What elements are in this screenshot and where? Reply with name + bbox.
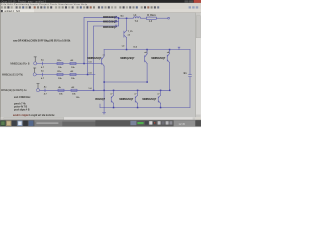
value label 10k stray [76, 97, 80, 99]
value Q5 x7 [110, 94, 113, 96]
wire Q6 collector stub [137, 103, 139, 107]
title bar [0, 0, 201, 3]
wire top branch [119, 17, 133, 19]
label V2 [2, 73, 23, 76]
transistor Q3 [167, 53, 170, 63]
wire Q7 emitter stub [160, 90, 162, 95]
wire bus vertical node D [118, 17, 120, 26]
junction row3 at Q5 [113, 90, 115, 92]
menu bar [0, 3, 201, 6]
value R2 10k [71, 67, 75, 69]
label D1 MMBD29Q7 [103, 16, 117, 19]
svg-text:saw DR KNEIeLCHEN SUFF Bkg (VB: saw DR KNEIeLCHEN SUFF Bkg (VB EUV) a 0.… [13, 40, 71, 42]
transistor Q1 [102, 56, 105, 66]
wire Q6 emitter stub [137, 90, 139, 95]
junction row2 loop B [87, 74, 89, 76]
svg-text:4m: 4m [183, 72, 186, 75]
wire Q4 collector up [126, 18, 128, 30]
wire Q1 collector stub [103, 50, 105, 57]
wire row 1 [37, 63, 101, 65]
wire row 3 [40, 89, 170, 91]
label L4 [134, 14, 137, 17]
svg-text:WAVE(1k) (E.01ETk) Ax: WAVE(1k) (E.01ETk) Ax [1, 89, 27, 92]
label Q1 MMBD29Q7 [87, 57, 102, 60]
wire loop net A (from row 1 up and right) [84, 17, 119, 63]
label row1 1.4 [88, 60, 92, 63]
net tick row 2 [41, 73, 43, 76]
resistor R7 R_Rxxx [146, 17, 156, 19]
junction bottom rail Q5 [113, 107, 115, 109]
wire Q2 collector stub [146, 50, 148, 54]
svg-text:R_Rxxx: R_Rxxx [147, 15, 156, 17]
svg-text:MMBD(1k) (R)+ B: MMBD(1k) (R)+ B [10, 62, 29, 65]
svg-text:Qucs 0.0.19 - Project: amp - u: Qucs 0.0.19 - Project: amp - untitled 2 [2, 0, 47, 3]
junction row3 at Q1 emitter [103, 90, 105, 92]
horizontal scrollbar [1, 117, 196, 120]
open terminal node out [168, 17, 170, 19]
label Q5 MMBD29Q7 [95, 98, 105, 101]
vertical scrollbar [196, 13, 202, 117]
wire Q5 emitter stub [113, 90, 115, 95]
ground flag V3 [37, 84, 39, 89]
label Q2 MMBQ29Q7 [120, 57, 135, 60]
label Q4 T_PL [128, 31, 134, 33]
resistor R3 [57, 73, 63, 75]
net flag tick on mid rail [178, 47, 180, 49]
value Q7 x7 [157, 94, 160, 96]
value R5 10k [59, 94, 63, 96]
transistor Q2 [145, 54, 148, 64]
svg-text:pwrsh 7 4k: pwrsh 7 4k [14, 102, 26, 105]
wire Q1 emitter down [103, 66, 105, 108]
svg-text:BD29Q7: BD29Q7 [95, 98, 105, 101]
svg-text:MMBD29Q7: MMBD29Q7 [103, 16, 117, 19]
wire Q7 collector stub [160, 103, 162, 107]
transistor Q6 [135, 95, 137, 103]
svg-text:axxdrt x tdgtat b xxgtd wrt td: axxdrt x tdgtat b xxgtd wrt tda bcdxrtw [13, 114, 55, 117]
value Q1 x1 [103, 54, 106, 56]
wire right vertical upper [189, 50, 191, 75]
label row3 Ax [44, 85, 48, 88]
wire loop net C (from row 3 up and right) [94, 26, 119, 90]
net tick row 1 [41, 62, 43, 65]
wire loop net B (from row 2 up and right) [88, 21, 119, 74]
label R7 R_Rxxx [147, 15, 156, 17]
tab bar [0, 9, 201, 13]
voltage source V3 [36, 89, 39, 92]
transistor Q7 [158, 95, 160, 103]
svg-text:MMBD29Q7: MMBD29Q7 [142, 98, 157, 101]
label R5 [58, 86, 61, 89]
resistor R1 [57, 62, 63, 64]
label row2 1.4 [88, 71, 92, 74]
value Q3 x4 [167, 51, 170, 54]
label D3 MMBD29Q7 [103, 26, 117, 29]
net tick row 3 [44, 89, 46, 92]
inductor L4 [133, 17, 140, 18]
wire Q3 collector stub [169, 50, 171, 54]
svg-text:MMBD29Q7: MMBD29Q7 [87, 57, 102, 60]
value C1 4m [183, 72, 186, 75]
diode D2 [115, 20, 117, 22]
wire R7 to open terminal [156, 17, 167, 19]
label row3 1.4 [88, 87, 92, 90]
value R6 10k [72, 94, 76, 96]
wire L4 to R7 [141, 17, 147, 19]
junction row3 at Q7 [160, 90, 162, 92]
white margin below window [0, 127, 201, 150]
resistor R6 [71, 89, 77, 91]
window chrome background [0, 0, 201, 127]
schematic canvas [0, 3, 196, 120]
value row1 4.7 [41, 66, 45, 69]
svg-text:MMBD29Q7: MMBD29Q7 [151, 57, 166, 60]
label net L2 [122, 45, 125, 47]
text note line c [14, 105, 28, 108]
label node Du [121, 16, 125, 18]
junction rail A right [146, 81, 148, 83]
value L4 7.4 [135, 20, 139, 23]
resistor R4 [70, 73, 76, 75]
label Q7 MMBD29Q7 [142, 98, 157, 101]
label row1 Ax [41, 59, 45, 62]
value R4 10k [71, 78, 75, 80]
svg-text:T_PL: T_PL [128, 31, 134, 33]
svg-text:MMBD29Q7: MMBD29Q7 [103, 21, 117, 24]
toolbar [0, 6, 201, 10]
svg-text:MMB(1k) (E.014Tk): MMB(1k) (E.014Tk) [2, 73, 23, 76]
wire row 2 [37, 74, 95, 76]
label Q6 MMBD29Q7 [119, 98, 134, 101]
voltage source V2 [33, 73, 36, 76]
wire Q4 emitter down to mid rail [126, 38, 128, 50]
resistor R5 [58, 89, 64, 91]
value row2 4.7 [41, 77, 45, 80]
ground flag V1 [34, 57, 36, 62]
mid rail wire [104, 49, 190, 51]
junction mid rail at Q4 [126, 49, 128, 51]
text note line b [14, 102, 26, 105]
value row3 4.7 [44, 93, 48, 96]
label R4 [70, 70, 74, 73]
text note line d [14, 108, 30, 111]
junction row3 at Q3 emitter [169, 90, 171, 92]
wire Q2 emitter down to rail A [146, 63, 148, 82]
junction node D [118, 18, 120, 20]
junction on top branch at Q4 collector [126, 18, 128, 20]
svg-text:and 4 MBD Bxx: and 4 MBD Bxx [14, 96, 31, 99]
diode D3 [115, 25, 117, 27]
voltage source V1 [34, 62, 37, 65]
label R2 [70, 59, 74, 62]
diode D1 [115, 16, 117, 18]
wire right vertical lower [189, 77, 191, 108]
svg-text:push dipta 4 B: push dipta 4 B [14, 108, 30, 111]
bottom rail wire [100, 107, 190, 109]
junction rail A left [103, 81, 105, 83]
svg-text:MMBD29Q7: MMBD29Q7 [119, 98, 134, 101]
label R6 [71, 86, 75, 89]
wire bottom rail left corner up [99, 104, 101, 108]
value Q6 x7 [134, 94, 137, 96]
junction mid rail at Q3 [169, 49, 171, 51]
transistor Q5 [111, 95, 113, 103]
taskbar [0, 120, 201, 127]
text note line a [14, 96, 31, 99]
label Q3 MMBD29Q7 [151, 57, 166, 60]
junction mid rail at Q2 [146, 49, 148, 51]
value R7 1.4 [149, 20, 153, 23]
value Q2 x4 [144, 51, 147, 54]
svg-text:pulse 4k 7 B: pulse 4k 7 B [14, 105, 28, 108]
label row2 Ax [41, 70, 45, 73]
label D2 MMBD29Q7 [103, 21, 117, 24]
label mid rail 0u2 [133, 47, 138, 49]
junction bottom rail Q7 [160, 107, 162, 109]
label R1 [57, 60, 62, 62]
junction row3 at Q6 [137, 90, 139, 92]
wire Q5 collector stub [113, 103, 115, 107]
junction row3 loop C [93, 90, 95, 92]
comment text note [13, 40, 71, 42]
schematic drawing layer [1, 14, 192, 117]
ground flag V2 [34, 68, 36, 73]
resistor R2 [70, 62, 76, 64]
svg-text:MMBD29Q7: MMBD29Q7 [103, 26, 117, 29]
junction bottom rail Q6 [137, 107, 139, 109]
value R1 10k [58, 67, 62, 69]
svg-text:MMBQ29Q7: MMBQ29Q7 [120, 57, 135, 60]
label V3 [1, 89, 27, 92]
value R3 10k [58, 78, 62, 80]
wire rail A [104, 81, 147, 83]
svg-text:12:45: 12:45 [179, 122, 186, 126]
label V1 [10, 62, 29, 65]
transistor Q4 [124, 31, 127, 38]
wire Q3 emitter down to wire B [169, 63, 171, 91]
capacitor C1 [189, 75, 192, 77]
value Q4 a2 [128, 34, 131, 36]
junction row1 loop A [83, 63, 85, 65]
ground [103, 108, 106, 114]
spice directive line [13, 114, 55, 117]
label R3 [57, 71, 62, 73]
